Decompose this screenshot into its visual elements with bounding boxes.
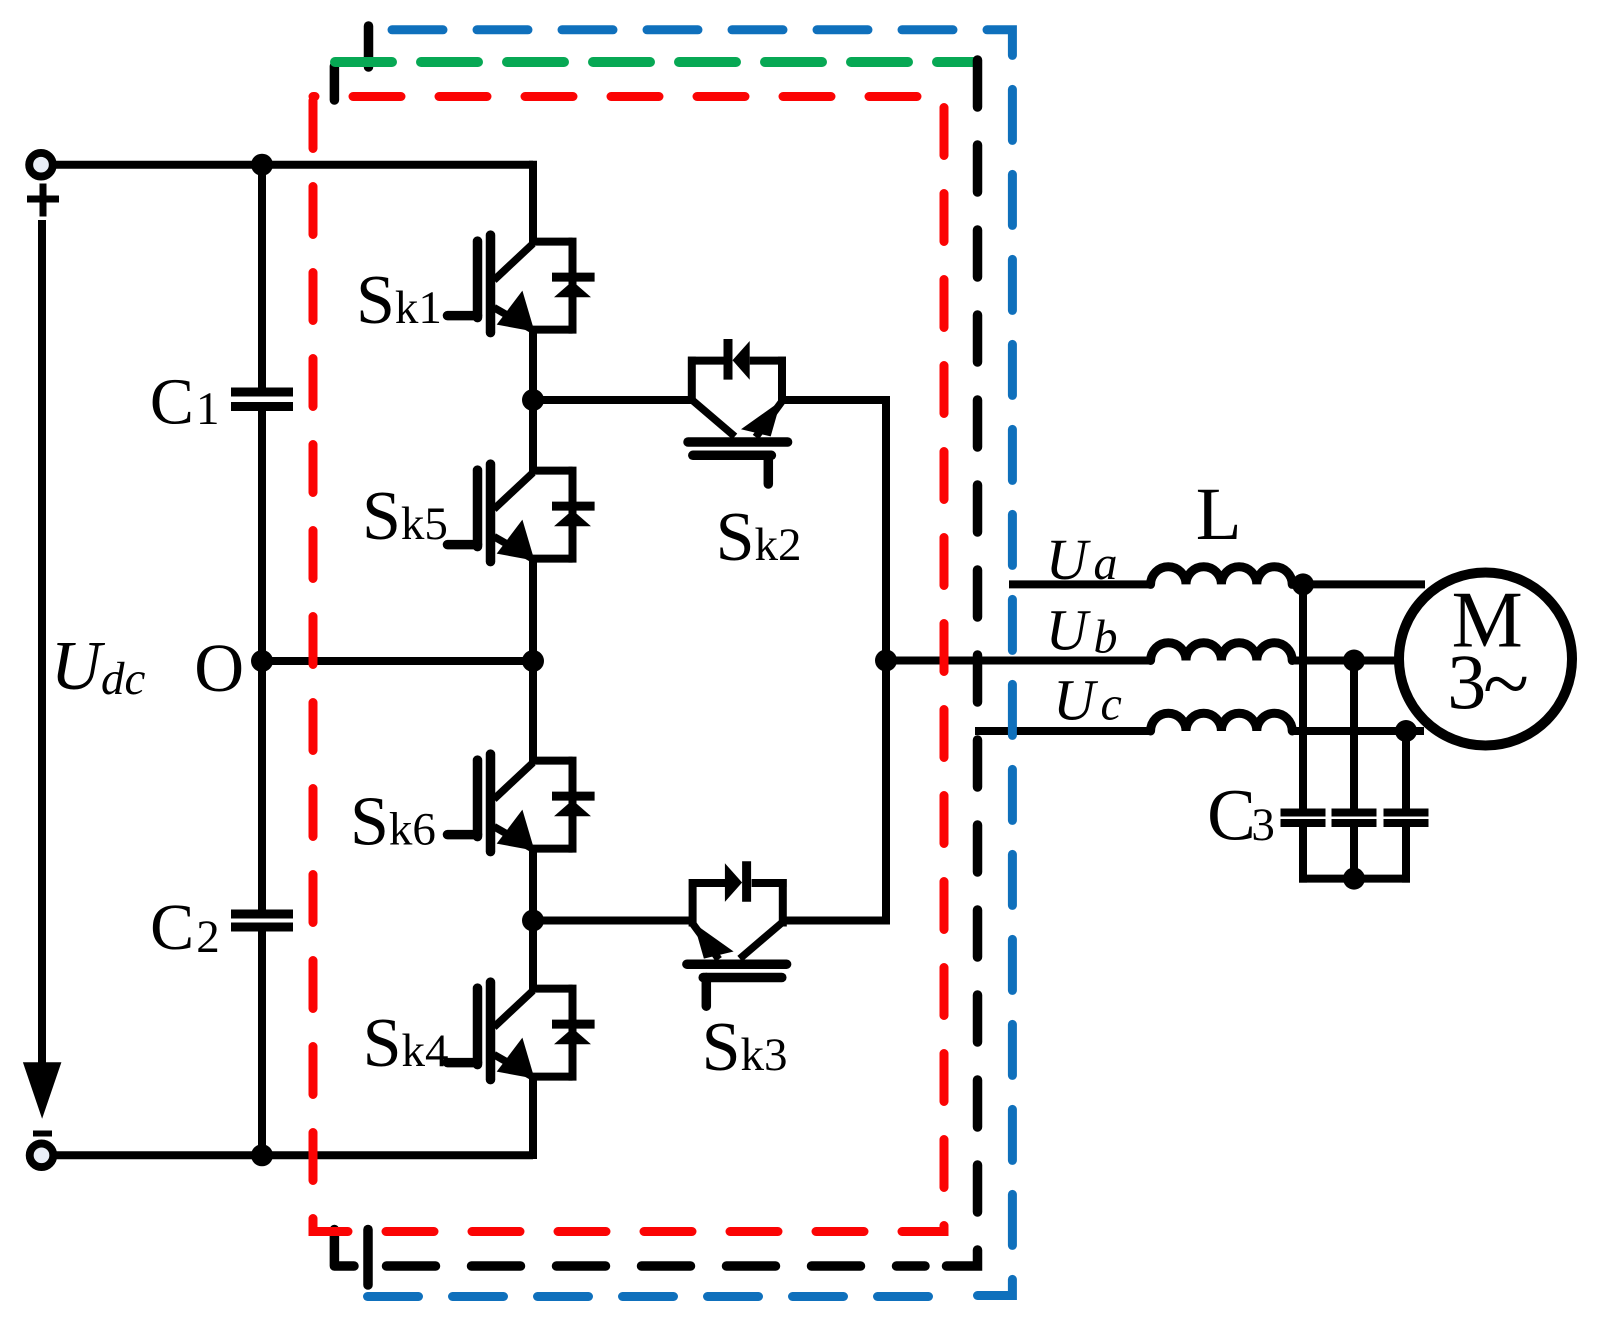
node junction top rail / C1	[251, 154, 273, 176]
black tick top green-red	[330, 66, 340, 100]
svg-text:k4: k4	[402, 1025, 449, 1077]
transistor Sk3	[687, 861, 787, 1006]
node c junction	[1395, 720, 1417, 742]
wire top dc+ rail	[53, 161, 533, 169]
transistor Sk5	[448, 464, 595, 562]
wire Ua lead-in	[1009, 580, 1151, 588]
wire cap-b lower	[1350, 822, 1358, 883]
svg-text:k5: k5	[401, 498, 448, 550]
svg-text:S: S	[716, 499, 755, 576]
node cap bus junction	[1343, 868, 1365, 890]
wire chain top	[529, 161, 537, 245]
node O chain junction	[522, 650, 544, 672]
capacitor C1	[231, 388, 293, 397]
capacitor C3b	[1332, 809, 1377, 817]
svg-text:k3: k3	[741, 1029, 788, 1081]
svg-text:U: U	[1046, 527, 1092, 592]
wire C1 to O	[258, 411, 266, 661]
svg-text:S: S	[356, 262, 395, 339]
svg-text:a: a	[1094, 537, 1118, 590]
svg-text:S: S	[350, 784, 389, 861]
wire Sk4 to bottom rail	[529, 1077, 537, 1159]
black corner bottom-left	[334, 1230, 354, 1267]
wire Sk6 to Sk4	[529, 849, 537, 992]
transistor Sk4	[448, 982, 595, 1081]
black dashed box right+bottom	[942, 60, 978, 1266]
wire C2 to bottom rail	[258, 931, 266, 1159]
wire Sk2 to trunk	[782, 396, 890, 404]
wire cap-b drop	[1350, 661, 1358, 814]
svg-text:U: U	[51, 628, 106, 705]
svg-text:U: U	[1046, 597, 1092, 662]
svg-text:~: ~	[1483, 637, 1529, 731]
wire bottom dc- rail	[53, 1151, 533, 1159]
blue dashed outer box	[392, 30, 1012, 1296]
black tick top blue-green	[364, 26, 374, 67]
svg-text:S: S	[363, 1005, 402, 1082]
wire cap-c lower	[1402, 822, 1410, 883]
minus sign	[33, 1131, 52, 1137]
wire cap-a lower	[1299, 822, 1307, 883]
svg-text:b: b	[1094, 610, 1118, 663]
svg-text:C: C	[150, 891, 194, 964]
capacitor C3a	[1281, 809, 1326, 817]
svg-text:C: C	[150, 366, 194, 439]
svg-text:dc: dc	[101, 653, 146, 705]
wire La to motor	[1293, 580, 1426, 588]
svg-text:1: 1	[196, 383, 220, 435]
transistor Sk2	[688, 339, 788, 484]
transistor Sk6	[448, 754, 595, 853]
node O junction	[251, 650, 273, 672]
node A junction	[522, 389, 544, 411]
wire C2 upper	[258, 661, 266, 910]
capacitor C3c	[1384, 809, 1429, 817]
wire Udc source vertical	[38, 220, 46, 1063]
node junction bottom rail / C2	[251, 1144, 273, 1166]
svg-text:k1: k1	[395, 282, 442, 334]
svg-text:O: O	[194, 630, 244, 706]
svg-text:3: 3	[1447, 638, 1486, 725]
wire node A to Sk2	[529, 396, 692, 404]
wire Lc to motor	[1293, 727, 1425, 735]
wire O line	[262, 657, 533, 665]
node a junction	[1292, 573, 1314, 595]
wire Uc lead-in	[975, 727, 1151, 735]
svg-text:k2: k2	[755, 519, 802, 571]
wire cap-a drop	[1299, 584, 1307, 813]
inductor Lc	[1151, 713, 1293, 731]
wire node B to Sk3	[529, 917, 693, 925]
black tick bottom red-blue	[363, 1230, 373, 1286]
node B junction	[522, 910, 544, 932]
svg-text:S: S	[702, 1009, 741, 1086]
wire C-branch upper	[258, 161, 266, 388]
svg-text:S: S	[362, 478, 401, 555]
inductor Lb	[1151, 643, 1293, 661]
transistor Sk1	[448, 235, 595, 334]
capacitor C2	[231, 910, 293, 919]
Udc arrow head	[23, 1062, 62, 1119]
svg-text:c: c	[1101, 677, 1122, 730]
node b junction	[1343, 650, 1365, 672]
wire Sk5 to Sk6	[529, 559, 537, 764]
motor M circle	[1399, 573, 1572, 746]
green dashed top line	[335, 57, 976, 67]
terminal - (bottom left)	[30, 1144, 54, 1168]
svg-text:U: U	[1053, 667, 1099, 732]
red dashed commutation loop box	[313, 97, 944, 1232]
svg-text:L: L	[1196, 473, 1242, 556]
wire Sk1 to Sk5	[529, 330, 537, 474]
wire Lb to motor	[1293, 657, 1399, 665]
svg-text:C: C	[1207, 775, 1256, 856]
svg-text:3: 3	[1251, 799, 1275, 851]
node output junction	[875, 650, 897, 672]
wire Sk3 to trunk	[783, 917, 890, 925]
inductor La	[1151, 567, 1293, 585]
wire output trunk vertical	[882, 396, 890, 921]
plus sign	[27, 196, 59, 203]
terminal + (top left)	[29, 153, 53, 177]
wire cap-c drop	[1402, 731, 1410, 813]
svg-text:2: 2	[196, 911, 220, 963]
svg-text:k6: k6	[389, 804, 436, 856]
wire cap bottom bus	[1299, 875, 1410, 883]
wire Ub output	[886, 657, 1151, 665]
